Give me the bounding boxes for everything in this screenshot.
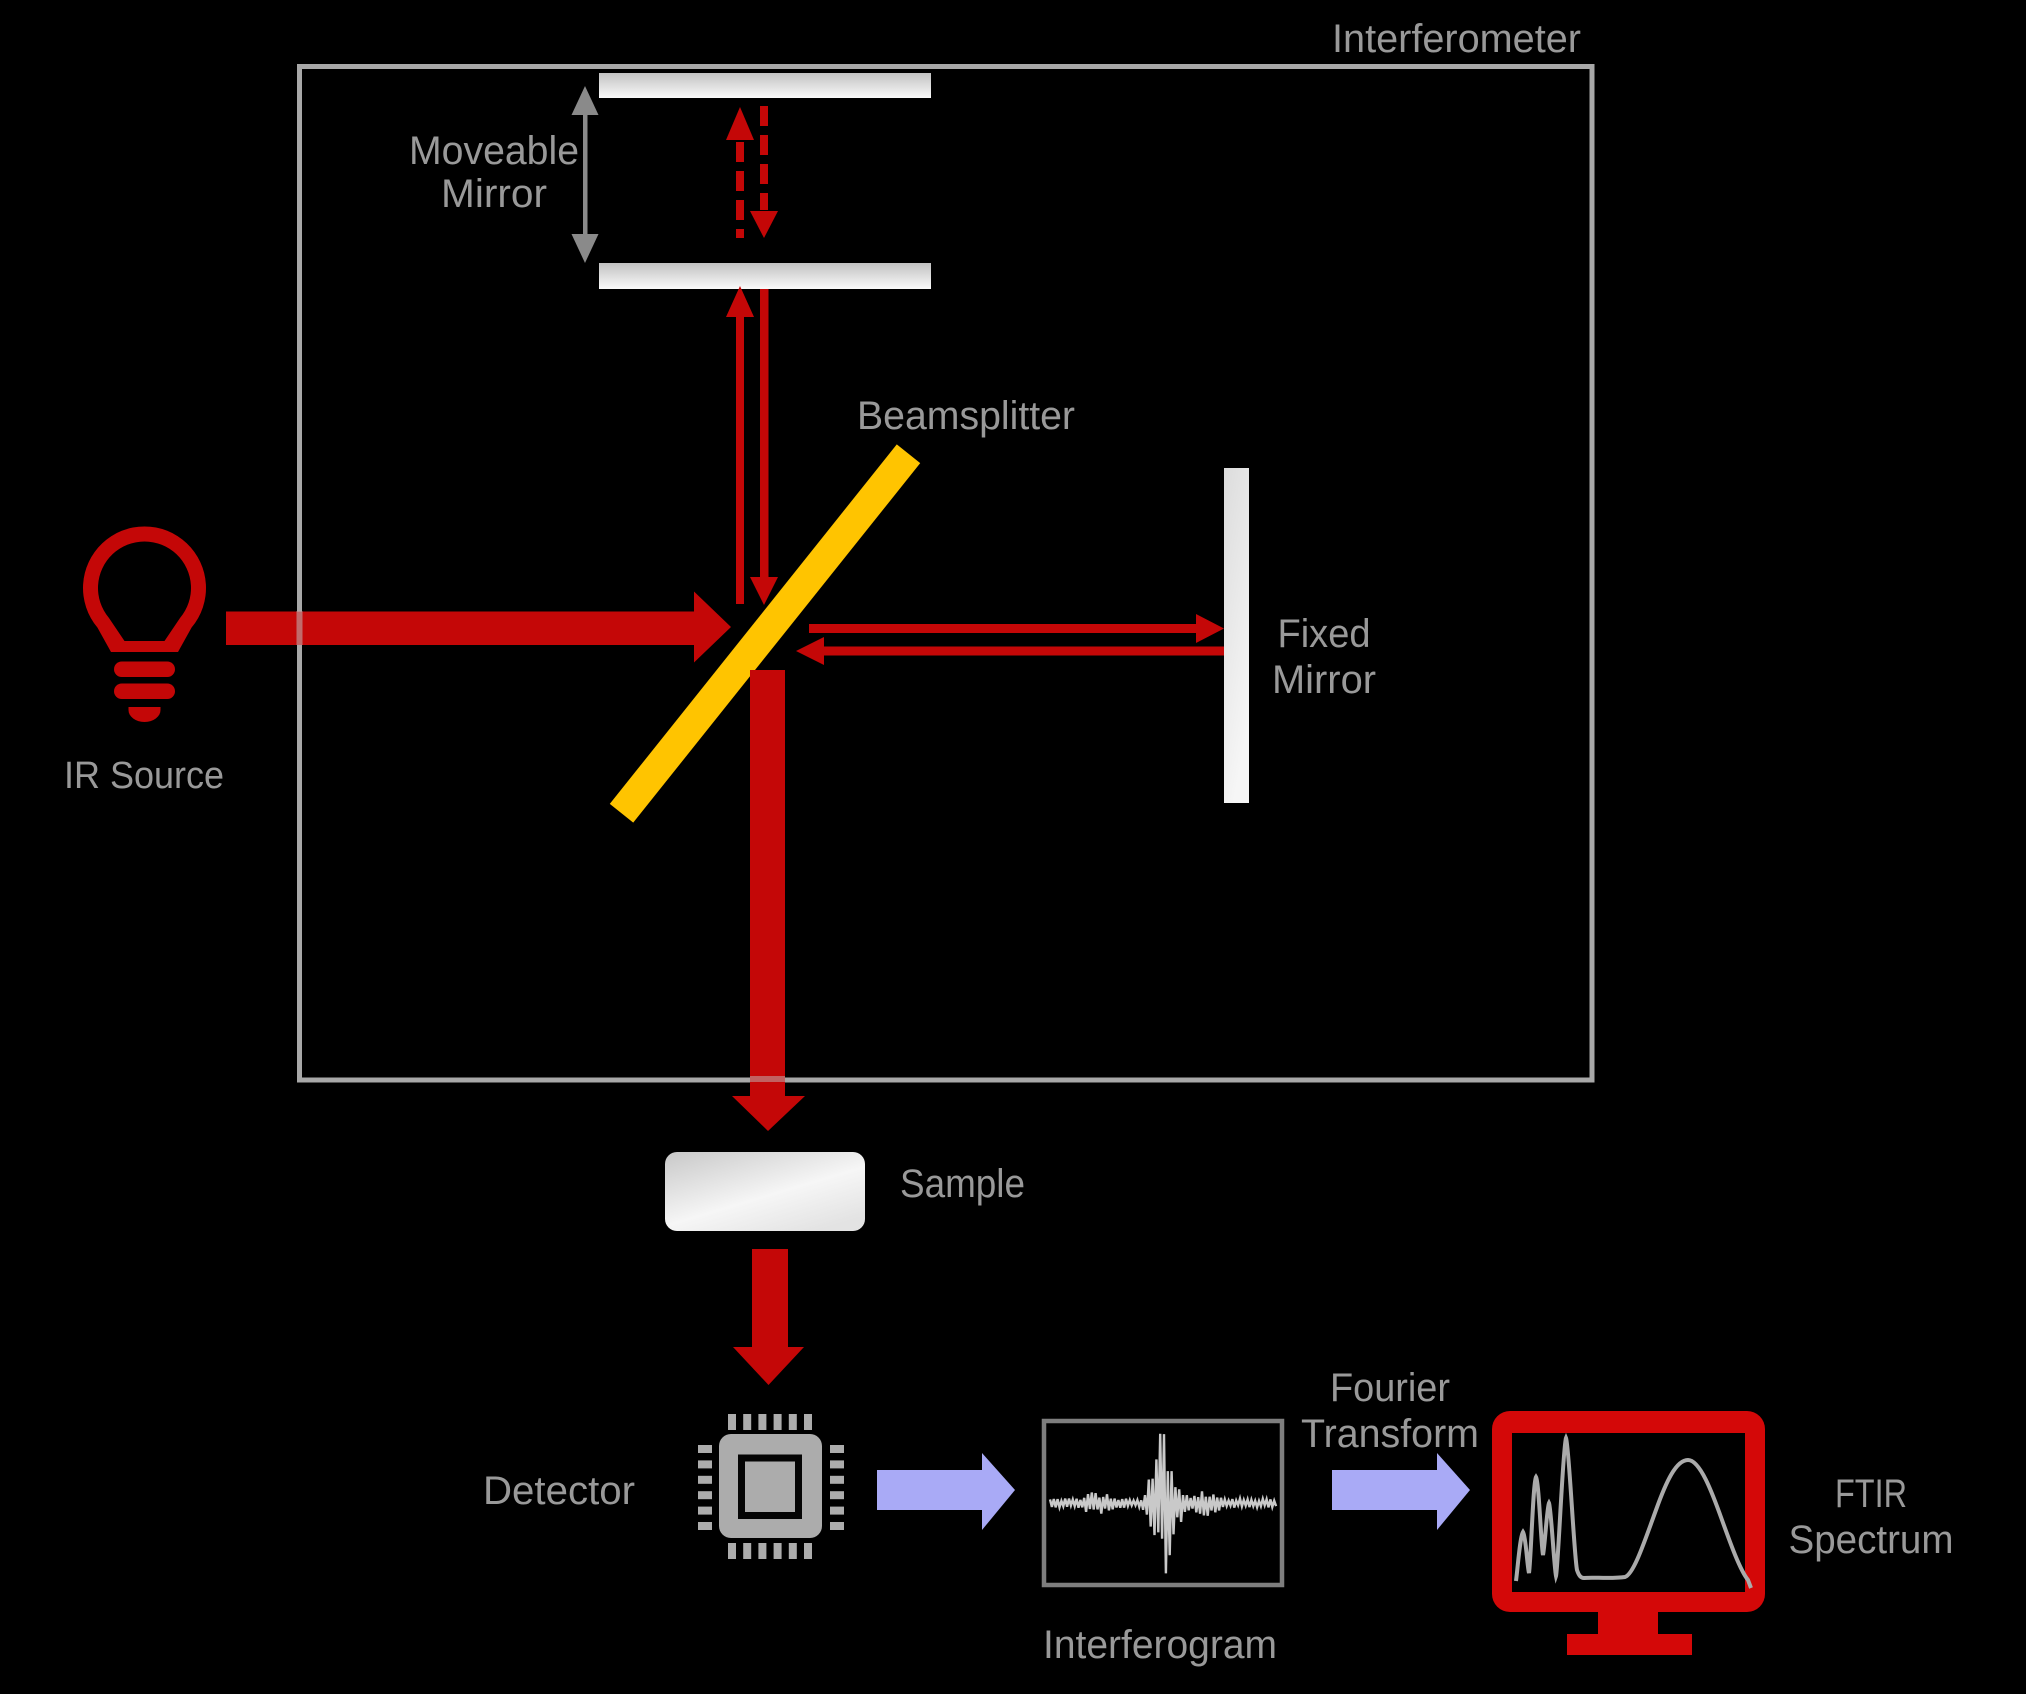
svg-text:Fourier: Fourier: [1330, 1366, 1450, 1410]
thin red arrow left from fixed mirror: [796, 637, 1224, 665]
svg-text:Fixed: Fixed: [1278, 612, 1371, 656]
thin red arrow down from moveable mirror: [750, 289, 778, 605]
svg-text:Mirror: Mirror: [1272, 658, 1376, 702]
svg-text:Sample: Sample: [900, 1162, 1025, 1206]
svg-text:Spectrum: Spectrum: [1789, 1518, 1954, 1562]
interferometer enclosure box: [300, 67, 1593, 1081]
dashed red arrow down (mirror travel): [750, 106, 778, 238]
svg-text:Detector: Detector: [483, 1469, 635, 1513]
fixed mirror bar: [1224, 468, 1249, 803]
dashed red arrow up (mirror travel): [726, 107, 754, 238]
thick red beam down to sample: [732, 670, 805, 1131]
moveable mirror travel double arrow: [572, 86, 599, 263]
thick red beam from IR source to beamsplitter: [226, 592, 731, 663]
thick red beam from sample to detector: [733, 1249, 804, 1385]
svg-text:Interferometer: Interferometer: [1332, 17, 1581, 61]
bottom border crossing tint: [750, 1076, 785, 1082]
svg-text:Beamsplitter: Beamsplitter: [857, 394, 1075, 438]
thin red arrow up to moveable mirror: [726, 286, 754, 604]
FTIR spectrum curve: [1516, 1438, 1751, 1588]
detector chip icon: [698, 1414, 844, 1559]
svg-text:Transform: Transform: [1301, 1412, 1479, 1456]
blue arrow detector to interferogram: [877, 1453, 1015, 1530]
svg-text:FTIR: FTIR: [1835, 1472, 1907, 1516]
interferogram trace: [1050, 1434, 1276, 1574]
beamsplitter: [610, 444, 920, 822]
interferogram box: [1044, 1421, 1282, 1585]
left border crossing tint: [297, 611, 303, 645]
sample holder: [665, 1152, 865, 1231]
moveable mirror top bar: [599, 73, 931, 98]
svg-text:IR Source: IR Source: [64, 755, 224, 797]
FTIR monitor icon: [1492, 1411, 1765, 1655]
svg-text:Interferogram: Interferogram: [1043, 1623, 1277, 1667]
thin red arrow right to fixed mirror: [809, 614, 1224, 643]
moveable mirror bottom bar: [599, 263, 931, 289]
IR source bulb icon: [83, 526, 206, 722]
svg-text:Mirror: Mirror: [441, 172, 547, 216]
svg-text:Moveable: Moveable: [409, 129, 579, 173]
blue arrow to FTIR spectrum: [1332, 1453, 1470, 1530]
FTIR monitor screen: [1512, 1433, 1745, 1592]
